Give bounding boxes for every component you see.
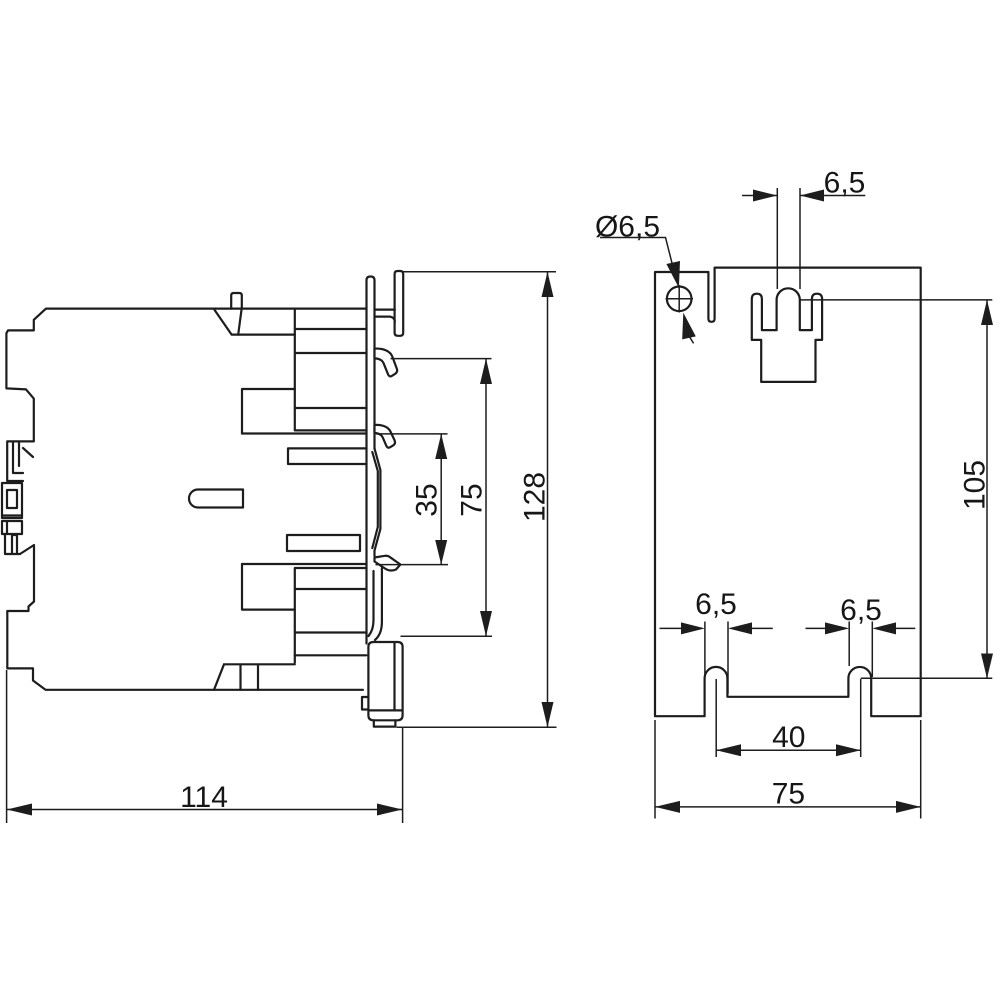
plate lower section: [369, 568, 382, 640]
svg-text:75: 75: [772, 778, 805, 811]
protrusion 1: [242, 389, 295, 434]
bar A: [287, 535, 360, 551]
leader arrow upper: [666, 261, 680, 288]
svg-text:75: 75: [456, 483, 489, 516]
protrusion 2: [242, 564, 295, 610]
arrow 6,5 bl left: [681, 622, 705, 634]
hook 1: [375, 349, 398, 377]
terminal block 2: [295, 568, 367, 663]
ext 6,5 bl right: [727, 622, 729, 695]
ext 105 bottom: [861, 677, 993, 679]
hook 3 pointed tab: [375, 556, 401, 571]
body outline lower-left and bottom: [7, 545, 363, 690]
pin: [189, 490, 243, 508]
clip left step: [362, 697, 368, 710]
ext 105 top: [800, 299, 992, 301]
ext 40 right: [860, 679, 862, 757]
dim line 128: [547, 272, 549, 727]
svg-text:128: 128: [519, 472, 552, 522]
arrow 75b left: [655, 801, 680, 813]
arrow 6,5 br right: [872, 622, 896, 634]
arrow 40 left: [716, 744, 741, 756]
arrow 6,5 top right: [800, 190, 824, 202]
left bracket stack: [2, 442, 33, 554]
dim 6,5 bl left part: [660, 627, 682, 629]
ext 40 left: [715, 679, 717, 757]
dim line 35: [440, 434, 442, 565]
svg-text:6,5: 6,5: [695, 588, 737, 621]
svg-text:Ø6,5: Ø6,5: [595, 210, 660, 243]
arrow 75 bottom: [480, 611, 492, 636]
terminal block 1: [295, 309, 367, 431]
hole crosshair: [666, 285, 694, 313]
ext 6,5 top left: [776, 188, 778, 289]
body outline upper-left: [6, 309, 366, 481]
DIN plate left edge: [367, 277, 375, 644]
ext 75b left: [654, 720, 656, 819]
bottom platform: [214, 664, 295, 690]
arrow 105 top: [981, 300, 993, 325]
arrow 128 top: [542, 272, 554, 297]
ext 35 top: [376, 433, 448, 435]
crown cutout: [752, 288, 822, 382]
svg-text:114: 114: [180, 781, 228, 814]
ext 75b right: [920, 720, 922, 819]
arrow 114 left: [7, 804, 32, 816]
ext 114 right: [402, 727, 404, 823]
ext 128 bottom: [397, 726, 557, 728]
top tab: [231, 293, 242, 335]
dim 6,5 br right part: [896, 627, 915, 629]
dim 6,5 top right part: [800, 195, 865, 197]
leader arrow lower: [682, 313, 696, 340]
DIN plate bulge: [372, 448, 380, 556]
ext 6,5 br left: [848, 622, 850, 667]
bar B: [288, 448, 367, 464]
leader tail lower: [687, 333, 694, 344]
terminal block 3: [295, 654, 367, 656]
ext 75 bottom: [401, 635, 493, 637]
svg-text:35: 35: [410, 483, 443, 516]
dim line 105: [986, 300, 988, 678]
arrow 40 right: [836, 744, 861, 756]
ext 6,5 bl left: [704, 622, 706, 676]
ext 6,5 br right: [871, 622, 873, 678]
ext 75 top: [391, 358, 492, 360]
bottom clip box: [368, 642, 402, 720]
top notch: [215, 310, 295, 335]
ext 6,5 top right: [799, 188, 801, 289]
arrow 114 right: [377, 804, 402, 816]
hook 2: [375, 425, 396, 448]
leader line: [600, 238, 677, 283]
svg-text:105: 105: [959, 460, 992, 510]
dim line 114: [7, 809, 402, 811]
arrow 6,5 br left: [825, 622, 849, 634]
arrow 35 top: [435, 434, 447, 459]
svg-text:40: 40: [772, 721, 805, 754]
arrow 6,5 top left: [753, 190, 777, 202]
arrow 35 bottom: [435, 540, 447, 565]
svg-text:6,5: 6,5: [824, 167, 866, 200]
ext 35 bottom: [376, 564, 449, 566]
dim line 40: [716, 749, 861, 751]
top hook bar: [395, 271, 404, 336]
dim 6,5 bl right part: [752, 627, 773, 629]
dim line 75 bottom: [655, 806, 921, 808]
dim 6,5 top left part: [742, 195, 777, 197]
ext 114 left: [6, 670, 8, 823]
internal line y564: [242, 563, 367, 565]
dim line 75: [485, 359, 487, 636]
clip foot: [374, 720, 396, 726]
arrow 128 bottom: [542, 702, 554, 727]
arrow 105 bottom: [981, 654, 993, 679]
arrow 6,5 bl right: [728, 622, 752, 634]
ext 128 top: [402, 271, 556, 273]
top hook arm: [375, 310, 395, 322]
arrow 75 top: [480, 359, 492, 384]
internal line y433: [242, 432, 367, 434]
dim 6,5 br left part: [806, 627, 826, 629]
svg-text:6,5: 6,5: [840, 594, 882, 627]
mounting hole: [667, 287, 692, 312]
arrow 75b right: [896, 801, 921, 813]
plate outline: [655, 268, 921, 717]
